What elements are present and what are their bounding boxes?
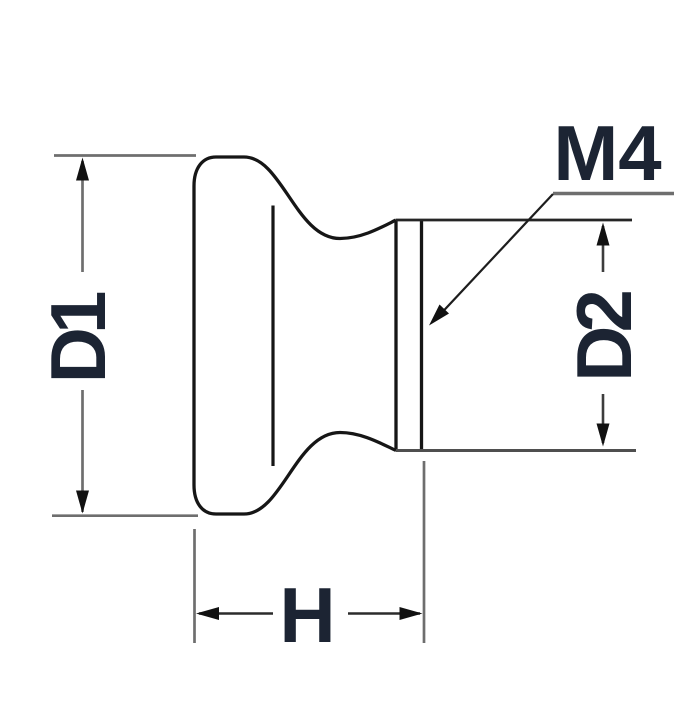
arrow D2 up [597,223,610,246]
svg-text:M4: M4 [553,109,661,197]
M4 leader diagonal [434,194,553,321]
extension line H left [193,529,196,643]
svg-text:D1: D1 [34,292,122,383]
extension line D1 top [54,154,196,157]
cylinder bottom edge [396,449,636,452]
arrow D1 up [76,158,89,181]
band line right [420,220,423,451]
knob neck bottom curve [244,433,396,515]
band line left [394,220,397,451]
arrow D2 down [597,424,610,447]
dimension line H [199,612,273,615]
dimension line D2 [602,226,605,272]
M4 leader underline [553,192,674,195]
extension line D1 bottom [52,514,198,517]
arrow D1 down [76,491,89,514]
cylinder top edge [396,219,632,222]
cap face edge line [271,206,274,467]
M4 leader arrowhead [429,305,449,326]
extension line H right [423,461,426,643]
svg-text:D2: D2 [560,292,648,382]
dimension line D1 [81,161,84,272]
svg-text:H: H [279,571,335,659]
arrow H left [196,607,219,620]
knob cap outline [194,157,244,514]
knob neck top curve [244,157,396,239]
arrow H right [400,607,423,620]
